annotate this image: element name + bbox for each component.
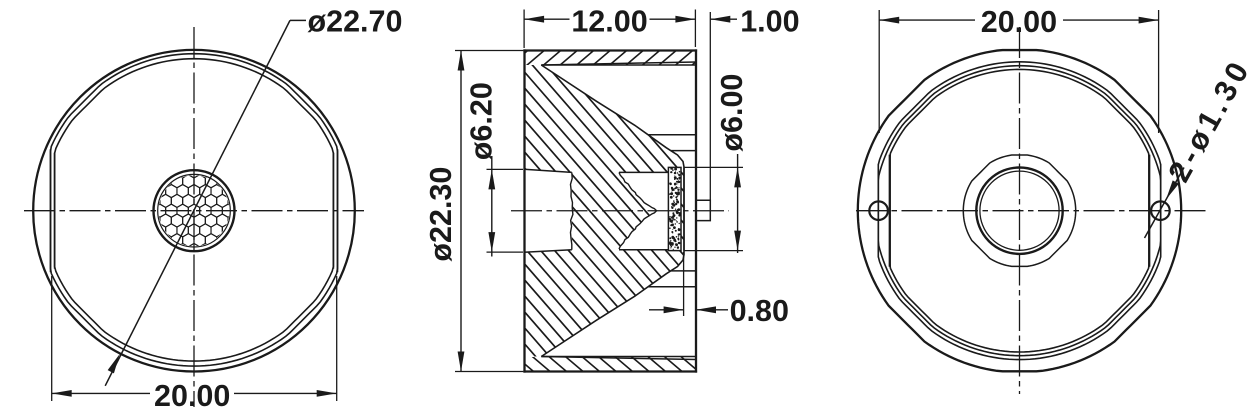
svg-text:20.00: 20.00 (154, 379, 230, 413)
svg-text:12.00: 12.00 (571, 4, 647, 38)
svg-text:ø6.00: ø6.00 (715, 74, 749, 152)
svg-text:ø6.20: ø6.20 (464, 82, 498, 160)
svg-text:0.80: 0.80 (730, 294, 789, 328)
svg-text:1.00: 1.00 (740, 4, 799, 38)
svg-text:20.00: 20.00 (981, 5, 1057, 39)
svg-text:ø22.30: ø22.30 (424, 167, 458, 262)
svg-text:ø22.70: ø22.70 (308, 5, 403, 39)
